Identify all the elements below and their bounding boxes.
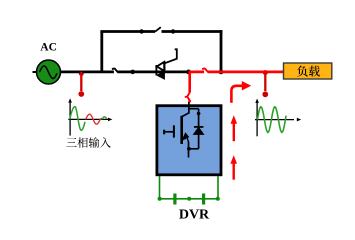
output waveform axes [255,102,294,137]
DVR converter box [157,106,221,175]
probe top junction dot [79,71,84,76]
DC-link comb (green) under DVR [158,176,220,205]
input waveform axes [68,102,108,136]
triac V1 (antiparallel thyristors) on main bus [156,61,164,79]
bypass switch dots [139,29,143,33]
AC source G1 (green circle with sine) [37,60,61,84]
IGBT Q1 inside DVR [164,102,189,158]
svg-text:DVR: DVR [179,208,210,223]
probe dot [78,91,84,97]
input waveform red (dip) [86,114,102,124]
label 三相输入 [66,137,110,148]
red up arrow A2 [232,163,234,180]
triac gate lead [165,49,177,63]
red injection arrow (curved) [231,86,242,103]
probe dot [262,91,268,97]
red up arrow A1 [233,123,235,142]
input waveform green (sag) [70,107,85,131]
bypass loop right riser [220,30,223,72]
output waveform green sine [257,107,286,133]
red probe tap at source side [80,72,82,91]
input waveform green tail [102,117,107,120]
bypass loop left riser [100,32,103,72]
red junction dot at load tap [263,70,268,75]
wire: red drop from node to DVR with breaker mark [188,72,191,103]
red breaker mark on red bus [202,68,208,72]
wire: red bus from node to load [189,71,284,74]
svg-text:AC: AC [40,42,57,54]
AC source stub wire [33,71,37,73]
wire: main black bus from source to junction [61,71,189,74]
red probe tap at load side [264,72,266,91]
bypass top wire [100,30,222,33]
bypass switch S2 blade [155,27,161,32]
load box 负载 [284,63,332,79]
junction dot on main bus [130,70,135,75]
freewheel diode D1 [187,109,204,151]
breaker S1 on main bus (open blade) [112,68,118,72]
junction dot bypass-right on red bus [219,70,224,75]
junction dot main/DVR node [186,70,191,75]
